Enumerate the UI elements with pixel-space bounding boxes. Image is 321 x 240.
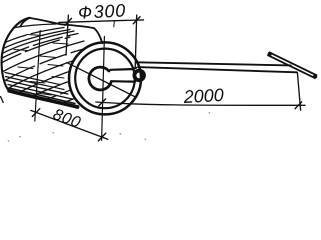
2000 left tick	[99, 99, 106, 106]
axle bracket bottom line	[111, 80, 135, 83]
2000 dimension line	[96, 102, 305, 105]
handle bottom line	[138, 67, 297, 72]
800 left tick	[32, 109, 40, 117]
grip rod	[268, 52, 316, 78]
svg-text:2000: 2000	[182, 85, 224, 107]
bottom band line 2	[7, 81, 69, 95]
2000 right tick	[295, 102, 302, 109]
faint paper specks	[8, 113, 209, 142]
800 right tick	[98, 133, 106, 141]
bottom band line 4	[9, 88, 75, 104]
svg-text:300: 300	[93, 0, 126, 22]
roller body hatching (clipped to body)	[1, 24, 99, 110]
dia 300 dimension: right extension line	[135, 15, 137, 69]
vertical centerline	[102, 37, 105, 141]
bottom band line 0	[5, 73, 60, 85]
dia 300 left tick	[65, 18, 72, 25]
800 dimension line	[31, 110, 108, 139]
dia 300 dimension line	[59, 20, 144, 23]
axle bracket knob tip	[134, 71, 144, 81]
roller body back face arc	[2, 18, 30, 91]
800 left extension line	[35, 31, 40, 122]
grip rod end caps	[269, 52, 270, 56]
stray stub below dim line	[113, 21, 116, 27]
front face inner circle	[75, 49, 135, 109]
stray mark left edge	[1, 97, 4, 103]
axle bracket top line	[111, 68, 134, 71]
front face outer circle	[69, 42, 141, 114]
bottom band line 1	[6, 77, 65, 90]
roller body bottom edge (thick)	[9, 91, 77, 107]
2000 right extension line	[297, 73, 300, 111]
roller body top edge	[21, 18, 103, 43]
svg-text:Ф: Ф	[78, 2, 93, 23]
handle top line	[137, 62, 291, 65]
dia 300 right tick	[133, 17, 140, 24]
dia 300 dimension: left extension line	[66, 15, 68, 55]
hub circle	[89, 67, 111, 90]
axis diagonal centerline	[67, 63, 137, 98]
short horizontal grain dashes	[14, 35, 68, 96]
axle bracket knob top step	[133, 68, 137, 69]
bottom band line 3	[8, 85, 72, 100]
svg-text:800: 800	[51, 106, 83, 132]
